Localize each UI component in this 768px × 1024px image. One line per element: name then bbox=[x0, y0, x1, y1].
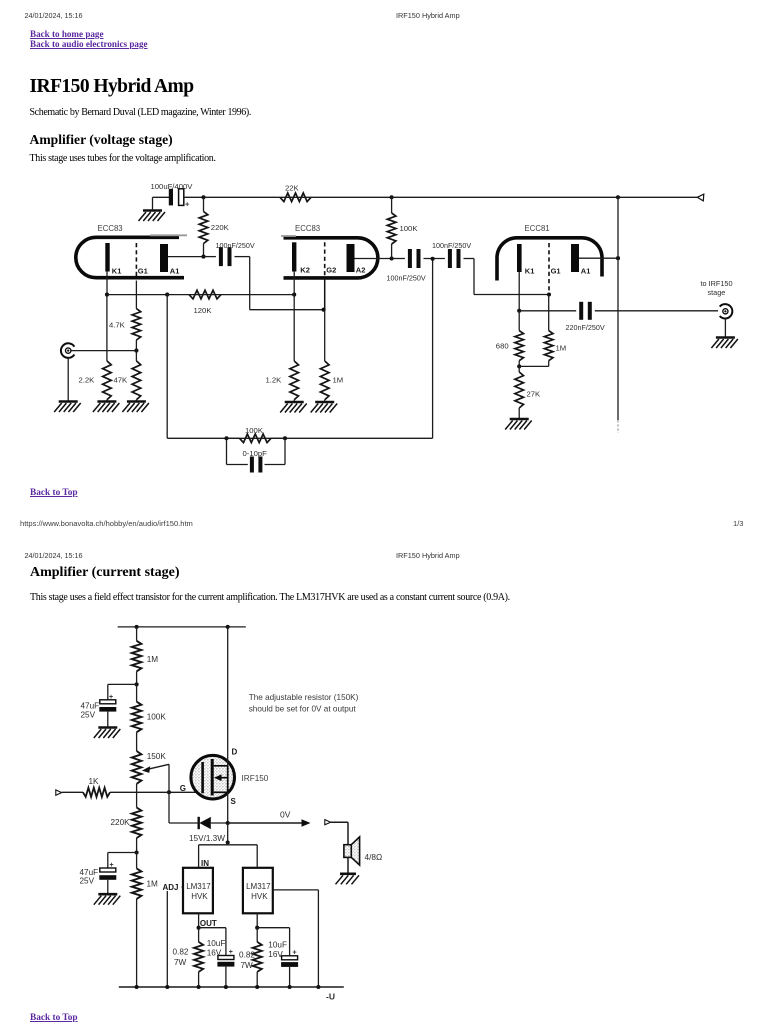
node feedback 100K left bbox=[224, 436, 228, 440]
svg-text:S: S bbox=[231, 797, 237, 806]
svg-text:should be set for 0V at output: should be set for 0V at output bbox=[249, 705, 357, 714]
grid G2 electrode (V2) bbox=[324, 242, 326, 278]
ground (47K) bbox=[122, 402, 148, 413]
cathode K2 electrode (V2) bbox=[292, 242, 296, 271]
resistor 22K (B+ rail) bbox=[280, 193, 311, 202]
resistor 100K (bias chain) bbox=[132, 684, 142, 751]
value label 100uF/400V bbox=[151, 182, 194, 191]
svg-text:K2: K2 bbox=[300, 265, 310, 274]
capacitor 0-10pF (feedback trim) bbox=[227, 438, 286, 472]
svg-text:+: + bbox=[293, 949, 297, 956]
value label 47K bbox=[114, 376, 129, 385]
wire drain to +U rail bbox=[227, 627, 229, 766]
node -U at 10uF right bbox=[288, 985, 292, 989]
node 680/1M/27K bbox=[517, 364, 521, 368]
grid G1 electrode (V1) bbox=[135, 243, 137, 278]
wire G2 dashed below tube bbox=[324, 278, 326, 310]
svg-text:0.82: 0.82 bbox=[239, 951, 255, 960]
wire feedback tap down bbox=[166, 295, 168, 439]
svg-text:OUT: OUT bbox=[200, 919, 217, 928]
0V output arrow bbox=[228, 819, 311, 827]
tube U2 ECC83 envelope bbox=[281, 236, 378, 278]
resistor 1.2K (K2 bias) bbox=[290, 361, 299, 402]
wire zener to source node bbox=[211, 822, 228, 824]
capacitor 47uF/25V (upper, polarized) bbox=[99, 694, 116, 712]
wire 100uF to node B+ bbox=[184, 196, 204, 198]
svg-text:ADJ: ADJ bbox=[163, 883, 179, 892]
part label IRF150 bbox=[242, 774, 269, 783]
note line 2 bbox=[249, 705, 357, 714]
resistor 120K (K1-K2) bbox=[189, 290, 221, 299]
wire B+ drop faded tail bbox=[617, 420, 619, 433]
ground (speaker) bbox=[336, 874, 360, 885]
wire down to 47uF cap 2 bbox=[107, 853, 109, 869]
section heading current stage bbox=[30, 565, 180, 581]
link back to home page bbox=[30, 29, 148, 49]
wire regulator feed horizontal bbox=[199, 844, 258, 846]
resistor 4.7K (grid stopper V1) bbox=[132, 281, 141, 351]
svg-text:2.2K: 2.2K bbox=[79, 376, 96, 385]
wire ADJ 2 down to -U bbox=[317, 890, 319, 987]
capacitor 10uF/16V (right, polarized) bbox=[281, 949, 298, 967]
svg-text:-U: -U bbox=[326, 992, 335, 1002]
node -U at ADJ 2 bbox=[316, 985, 320, 989]
svg-text:to IRF150: to IRF150 bbox=[701, 279, 733, 288]
node source/0V bbox=[226, 821, 230, 825]
wire corner down to ECC81 grid line bbox=[473, 259, 475, 295]
pin label G1 (V3) bbox=[551, 266, 561, 275]
svg-text:7W: 7W bbox=[174, 958, 187, 967]
svg-text:ECC81: ECC81 bbox=[525, 224, 550, 233]
main title bbox=[30, 76, 194, 98]
wiper arrow of 150K bbox=[142, 764, 169, 773]
value label 220K bbox=[211, 223, 230, 232]
node B+ junction at 220K bbox=[201, 195, 205, 199]
value label 4.7K bbox=[109, 321, 126, 330]
svg-text:IN: IN bbox=[201, 859, 209, 868]
wire -U rail bbox=[119, 986, 344, 988]
svg-text:27K: 27K bbox=[527, 390, 542, 399]
capacitor 47uF/25V (lower, polarized) bbox=[99, 862, 116, 880]
wire cathode to output cap bbox=[519, 310, 576, 312]
node feedback 100K right bbox=[283, 436, 287, 440]
value label 7W (right) bbox=[241, 961, 254, 970]
paragraph current stage bbox=[30, 592, 510, 603]
wire IN lead LM317 1 bbox=[198, 845, 200, 868]
node OUT 1 bbox=[197, 926, 201, 930]
svg-text:K1: K1 bbox=[112, 267, 122, 276]
byline bbox=[30, 107, 252, 118]
value label 7W (left) bbox=[174, 958, 187, 967]
wire OUT node 2 horizontal bbox=[257, 927, 289, 929]
value label 100K (chain) bbox=[147, 713, 167, 722]
transistor Q1 IRF150 (MOSFET) bbox=[191, 755, 235, 799]
svg-text:A2: A2 bbox=[356, 265, 366, 274]
input connector J1 bbox=[61, 343, 74, 358]
cathode K1 electrode (V1) bbox=[105, 243, 109, 272]
value label 1M (ECC81) bbox=[556, 344, 567, 353]
ground (47uF lower) bbox=[94, 894, 121, 905]
wire K2 down bbox=[293, 272, 295, 362]
tube label ECC81 (V3) bbox=[525, 224, 550, 233]
resistor 0.82 7W (left) bbox=[194, 928, 203, 987]
resistor 150K adjustable bbox=[132, 751, 142, 792]
text stage bbox=[708, 288, 726, 297]
value label 1M (G2) bbox=[333, 376, 344, 385]
wire ground to 100uF cap bbox=[152, 197, 154, 210]
node 220K/1M/47uF bbox=[135, 850, 139, 854]
page 1 header title bbox=[396, 11, 460, 20]
pin label ADJ bbox=[162, 881, 182, 892]
anode A2 electrode (V2) bbox=[347, 244, 355, 272]
value label 0.82 (left) bbox=[173, 948, 189, 957]
grid G1 electrode (V3) bbox=[548, 243, 550, 295]
resistor 1K (gate series) bbox=[62, 788, 110, 797]
back to top link page2 bbox=[30, 1013, 78, 1023]
svg-text:1M: 1M bbox=[147, 880, 159, 889]
value label 47uF (upper) bbox=[81, 702, 100, 711]
pin label A1 (V3) bbox=[581, 266, 591, 275]
wire 120K to K2 bbox=[221, 294, 294, 296]
wire OUT lead LM317 1 bbox=[198, 913, 200, 927]
node -U at 0.82 left bbox=[197, 985, 201, 989]
wire wiper node down to zener bbox=[168, 792, 170, 823]
pin label D bbox=[232, 748, 238, 757]
value label 25V (upper) bbox=[81, 711, 96, 720]
page 2 header title bbox=[396, 551, 460, 560]
resistor 1M (bias chain bottom) bbox=[132, 853, 142, 988]
wire ADJ down to -U bbox=[166, 887, 168, 987]
value label 16V (right) bbox=[268, 950, 283, 959]
svg-text:0.82: 0.82 bbox=[173, 948, 189, 957]
value label 10uF (left) bbox=[207, 939, 226, 948]
svg-text:G: G bbox=[180, 784, 186, 793]
node feedback takeoff bbox=[431, 257, 435, 261]
node B+ at 100K bbox=[390, 195, 394, 199]
wire terminal to speaker corner bbox=[331, 821, 348, 823]
svg-text:100nF/250V: 100nF/250V bbox=[432, 241, 471, 250]
svg-text:100K: 100K bbox=[245, 426, 264, 435]
value label 0-10pF bbox=[243, 449, 268, 458]
svg-text:The adjustable resistor (150K): The adjustable resistor (150K) bbox=[249, 693, 359, 702]
resistor 0.82 7W (right) bbox=[253, 928, 262, 987]
svg-text:47uF: 47uF bbox=[81, 702, 100, 711]
value label 100nF/250V (below) bbox=[387, 274, 426, 283]
wire A1 ECC81 to B+ drop bbox=[579, 257, 618, 259]
svg-text:LM317: LM317 bbox=[186, 882, 211, 891]
wire to grid G2 bbox=[250, 309, 324, 311]
wire K1 ECC81 down bbox=[518, 272, 520, 311]
wire corner joint bbox=[227, 843, 229, 845]
value label 27K bbox=[527, 390, 542, 399]
ground (27K) bbox=[505, 419, 532, 430]
back to top link page1 bbox=[30, 488, 78, 498]
value label 22K bbox=[285, 183, 300, 192]
pin label IN bbox=[201, 859, 209, 868]
resistor 1M (G ECC81) bbox=[544, 295, 553, 367]
text 0V bbox=[280, 810, 291, 820]
svg-text:25V: 25V bbox=[80, 877, 95, 886]
value label 47uF (lower) bbox=[80, 868, 99, 877]
node -U at ADJ 1 bbox=[165, 985, 169, 989]
wire plate node to coupling cap bbox=[204, 256, 216, 258]
svg-text:100nF/250V: 100nF/250V bbox=[387, 274, 426, 283]
wire down to 47uF cap 1 bbox=[107, 684, 109, 699]
node K2 bbox=[292, 293, 296, 297]
node -U at 1M chain bbox=[135, 985, 139, 989]
value label 220K bbox=[111, 818, 131, 827]
wire B+ rail middle segment bbox=[311, 196, 392, 198]
svg-text:120K: 120K bbox=[194, 306, 213, 315]
node OUT 2 bbox=[255, 926, 259, 930]
wire input to 47K node bbox=[71, 350, 136, 352]
ground (1M G2) bbox=[311, 402, 338, 413]
capacitor 10uF/16V (left, polarized) bbox=[217, 949, 234, 967]
pin label K1 (V3) bbox=[525, 266, 535, 275]
regulator U4 LM317HVK (left) bbox=[183, 868, 213, 914]
resistor 100K (feedback) bbox=[227, 434, 286, 443]
wire B+ rail left segment bbox=[204, 196, 281, 198]
svg-text:1K: 1K bbox=[89, 777, 100, 786]
wire B+ rail end segment bbox=[618, 196, 698, 198]
resistor 680 (K ECC81) bbox=[515, 311, 524, 367]
svg-text:7W: 7W bbox=[241, 961, 254, 970]
resistor 100K (V2 plate load) bbox=[387, 197, 396, 258]
svg-text:+: + bbox=[110, 862, 114, 869]
svg-text:0V: 0V bbox=[280, 810, 291, 820]
resistor 27K (K ECC81 lower) bbox=[515, 366, 524, 419]
svg-text:0-10pF: 0-10pF bbox=[243, 449, 268, 458]
footer page number bbox=[733, 519, 744, 528]
node G1 ECC81 bbox=[547, 292, 551, 296]
value label 15V/1.3W bbox=[189, 834, 225, 843]
svg-text:1.2K: 1.2K bbox=[266, 376, 283, 385]
svg-text:220K: 220K bbox=[211, 223, 230, 232]
input terminal (current stage) bbox=[56, 790, 62, 795]
node A1/220K/coupling cap bbox=[201, 255, 205, 259]
wire speaker to ground bbox=[347, 857, 349, 873]
capacitor 100nF/250V (second coupling) bbox=[410, 249, 419, 268]
wire +U rail bbox=[118, 626, 246, 628]
wire feedback rail up bbox=[432, 259, 434, 439]
pin label OUT bbox=[200, 919, 217, 928]
wire OUT node 1 horizontal bbox=[199, 927, 226, 929]
wire cap3 to corner bbox=[464, 258, 475, 260]
wire 680 to 1M bottom bbox=[519, 365, 549, 367]
resistor 1M (G2 leak) bbox=[320, 310, 329, 402]
svg-text:A1: A1 bbox=[170, 267, 180, 276]
svg-text:47K: 47K bbox=[114, 376, 129, 385]
capacitor 100nF/250V (V1-V2 coupling) bbox=[221, 247, 230, 266]
node A1 ECC81 B+ bbox=[616, 256, 620, 260]
svg-text:220K: 220K bbox=[111, 818, 131, 827]
wire 10uF 1 top lead bbox=[225, 928, 227, 956]
node feedback tap bbox=[165, 293, 169, 297]
wire K1 down bbox=[106, 272, 108, 295]
node -U at LM317 2 bbox=[255, 985, 259, 989]
ground (output) bbox=[711, 338, 738, 349]
node +U at 1M bbox=[135, 625, 139, 629]
node K1 ECC81 output bbox=[517, 309, 521, 313]
speaker terminal bbox=[325, 820, 331, 825]
node regulator feed bbox=[226, 840, 230, 844]
pin label G bbox=[180, 784, 186, 793]
value label 1K bbox=[89, 777, 100, 786]
wire feedback tap to 120K bbox=[167, 294, 189, 296]
wire IN lead LM317 2 bbox=[256, 845, 258, 868]
anode A1 electrode (V3) bbox=[571, 244, 579, 272]
wire to 47uF cap 1 bbox=[108, 683, 137, 685]
page 2 header date bbox=[25, 551, 83, 560]
page 1 header date bbox=[25, 11, 83, 20]
svg-text:IRF150: IRF150 bbox=[242, 774, 269, 783]
wire cap2 to feedback node bbox=[424, 258, 445, 260]
resistor 220K (V1 plate load) bbox=[199, 197, 208, 256]
wire down to speaker bbox=[347, 822, 349, 845]
capacitor 220nF/250V (output coupling) bbox=[581, 302, 590, 320]
value label 100K (plate) bbox=[400, 224, 419, 233]
pin label G1 (V1) bbox=[138, 267, 148, 276]
wire output cap to connector bbox=[595, 310, 718, 312]
pin label K1 (V1) bbox=[112, 267, 122, 276]
wire source down to 0V bbox=[227, 792, 229, 823]
resistor 1M (bias chain top) bbox=[132, 627, 142, 685]
wire plate node to cap2 bbox=[392, 258, 405, 260]
wire 10uF 1 bottom lead bbox=[225, 967, 227, 987]
value label 16V (left) bbox=[207, 948, 222, 957]
svg-text:16V: 16V bbox=[268, 950, 283, 959]
svg-text:ECC83: ECC83 bbox=[295, 224, 320, 233]
svg-text:1M: 1M bbox=[556, 344, 567, 353]
speaker LS1 bbox=[344, 837, 360, 865]
svg-text:D: D bbox=[232, 748, 238, 757]
svg-text:15V/1.3W: 15V/1.3W bbox=[189, 834, 225, 843]
svg-text:4/8Ω: 4/8Ω bbox=[365, 852, 383, 862]
node wiper/gate bbox=[167, 790, 171, 794]
wire A2 to plate node bbox=[355, 258, 392, 260]
wire ADJ lead LM317 2 bbox=[273, 889, 319, 891]
resistor 220K (bias chain lower) bbox=[132, 792, 142, 852]
node G2 bbox=[322, 308, 326, 312]
svg-text:100K: 100K bbox=[147, 713, 167, 722]
node input/4.7K/47K bbox=[134, 349, 138, 353]
pin label G2 (V2) bbox=[326, 265, 336, 274]
tube U3 ECC81 envelope bbox=[497, 238, 602, 281]
ground (input) bbox=[54, 402, 80, 413]
svg-text:G1: G1 bbox=[551, 266, 561, 275]
value label 1.2K bbox=[266, 376, 283, 385]
resistor 47K (input load) bbox=[132, 351, 141, 402]
node -U at 10uF left bbox=[224, 985, 228, 989]
value label 100K (feedback) bbox=[245, 426, 264, 435]
wire coupling cap to corner bbox=[235, 256, 250, 258]
svg-text:100nF/250V: 100nF/250V bbox=[216, 241, 255, 250]
wire B+ drop vertical bbox=[617, 197, 619, 420]
pin label S bbox=[231, 797, 237, 806]
ground (supply filter) bbox=[139, 211, 166, 222]
value label 120K bbox=[194, 306, 213, 315]
svg-text:1M: 1M bbox=[333, 376, 344, 385]
tube U1 ECC83 envelope bbox=[76, 235, 187, 277]
svg-text:4.7K: 4.7K bbox=[109, 321, 126, 330]
node 1M/100K/47uF bbox=[135, 682, 139, 686]
paragraph voltage stage bbox=[30, 153, 216, 164]
wire ADJ lead bbox=[167, 886, 183, 888]
text to IRF150 bbox=[701, 279, 733, 288]
svg-text:+: + bbox=[229, 949, 233, 956]
svg-text:HVK: HVK bbox=[251, 892, 268, 901]
wire OUT lead LM317 2 bbox=[256, 913, 258, 927]
svg-text:+: + bbox=[185, 200, 190, 209]
svg-text:G2: G2 bbox=[326, 265, 336, 274]
value label 0.82 (right) bbox=[239, 951, 255, 960]
wire 10uF 2 bottom lead bbox=[289, 967, 291, 987]
pin label K2 (V2) bbox=[300, 265, 310, 274]
value label 1M (chain bottom) bbox=[147, 880, 159, 889]
wire to grid G1 ECC81 bbox=[474, 294, 549, 296]
net label -U bbox=[326, 992, 335, 1002]
wire to 100uF cap left plate bbox=[153, 196, 170, 198]
svg-text:150K: 150K bbox=[147, 752, 167, 761]
tube label ECC83 (V1) bbox=[98, 224, 123, 233]
svg-text:LM317: LM317 bbox=[246, 882, 271, 891]
wire output connector to ground bbox=[724, 319, 726, 338]
value label 220nF/250V bbox=[566, 323, 605, 332]
wire wiper down to gate line bbox=[168, 764, 170, 792]
tube label ECC83 (V2) bbox=[295, 224, 320, 233]
note line 1 bbox=[249, 693, 359, 702]
value label 680 bbox=[496, 342, 509, 351]
svg-text:220nF/250V: 220nF/250V bbox=[566, 323, 605, 332]
wire input connector to ground bbox=[67, 358, 69, 402]
value label 100nF/250V (coupling 1) bbox=[216, 241, 255, 250]
ground (2.2K) bbox=[93, 402, 120, 413]
value label 4/8 ohm bbox=[365, 852, 383, 862]
pin label A1 (V1) bbox=[170, 267, 180, 276]
svg-text:HVK: HVK bbox=[191, 892, 208, 901]
ground (47uF upper) bbox=[94, 728, 121, 739]
ground (1.2K) bbox=[280, 402, 307, 413]
footer url bbox=[20, 519, 193, 528]
value label 1M (chain) bbox=[147, 655, 159, 664]
wire source node to regulators bbox=[227, 823, 229, 843]
cathode K1 electrode (V3) bbox=[517, 244, 522, 272]
capacitor 100nF/250V (third coupling) bbox=[450, 249, 459, 268]
wire K1 rail to feedback tap bbox=[107, 294, 167, 296]
wire zener cathode to wiper corner bbox=[169, 822, 199, 824]
svg-text:22K: 22K bbox=[285, 183, 300, 192]
svg-text:25V: 25V bbox=[81, 711, 96, 720]
wire 10uF 2 top lead bbox=[289, 928, 291, 956]
pin label A2 (V2) bbox=[356, 265, 366, 274]
anode A1 electrode (V1) bbox=[160, 244, 168, 272]
resistor 2.2K (K1 bias) bbox=[103, 295, 112, 402]
svg-text:G1: G1 bbox=[138, 267, 148, 276]
svg-text:680: 680 bbox=[496, 342, 509, 351]
B+ off-page arrow terminal bbox=[697, 194, 704, 201]
section heading voltage stage bbox=[30, 132, 173, 148]
svg-text:1M: 1M bbox=[147, 655, 159, 664]
wire 47uF 1 to ground bbox=[107, 712, 109, 728]
svg-text:+: + bbox=[109, 694, 113, 701]
value label 150K bbox=[147, 752, 167, 761]
svg-text:10uF: 10uF bbox=[268, 941, 287, 950]
node +U at drain bbox=[226, 625, 230, 629]
node A2/100K bbox=[390, 256, 394, 260]
value label 10uF (right) bbox=[268, 941, 287, 950]
wire 1K to gate bbox=[110, 791, 203, 793]
svg-text:100uF/400V: 100uF/400V bbox=[151, 182, 194, 191]
